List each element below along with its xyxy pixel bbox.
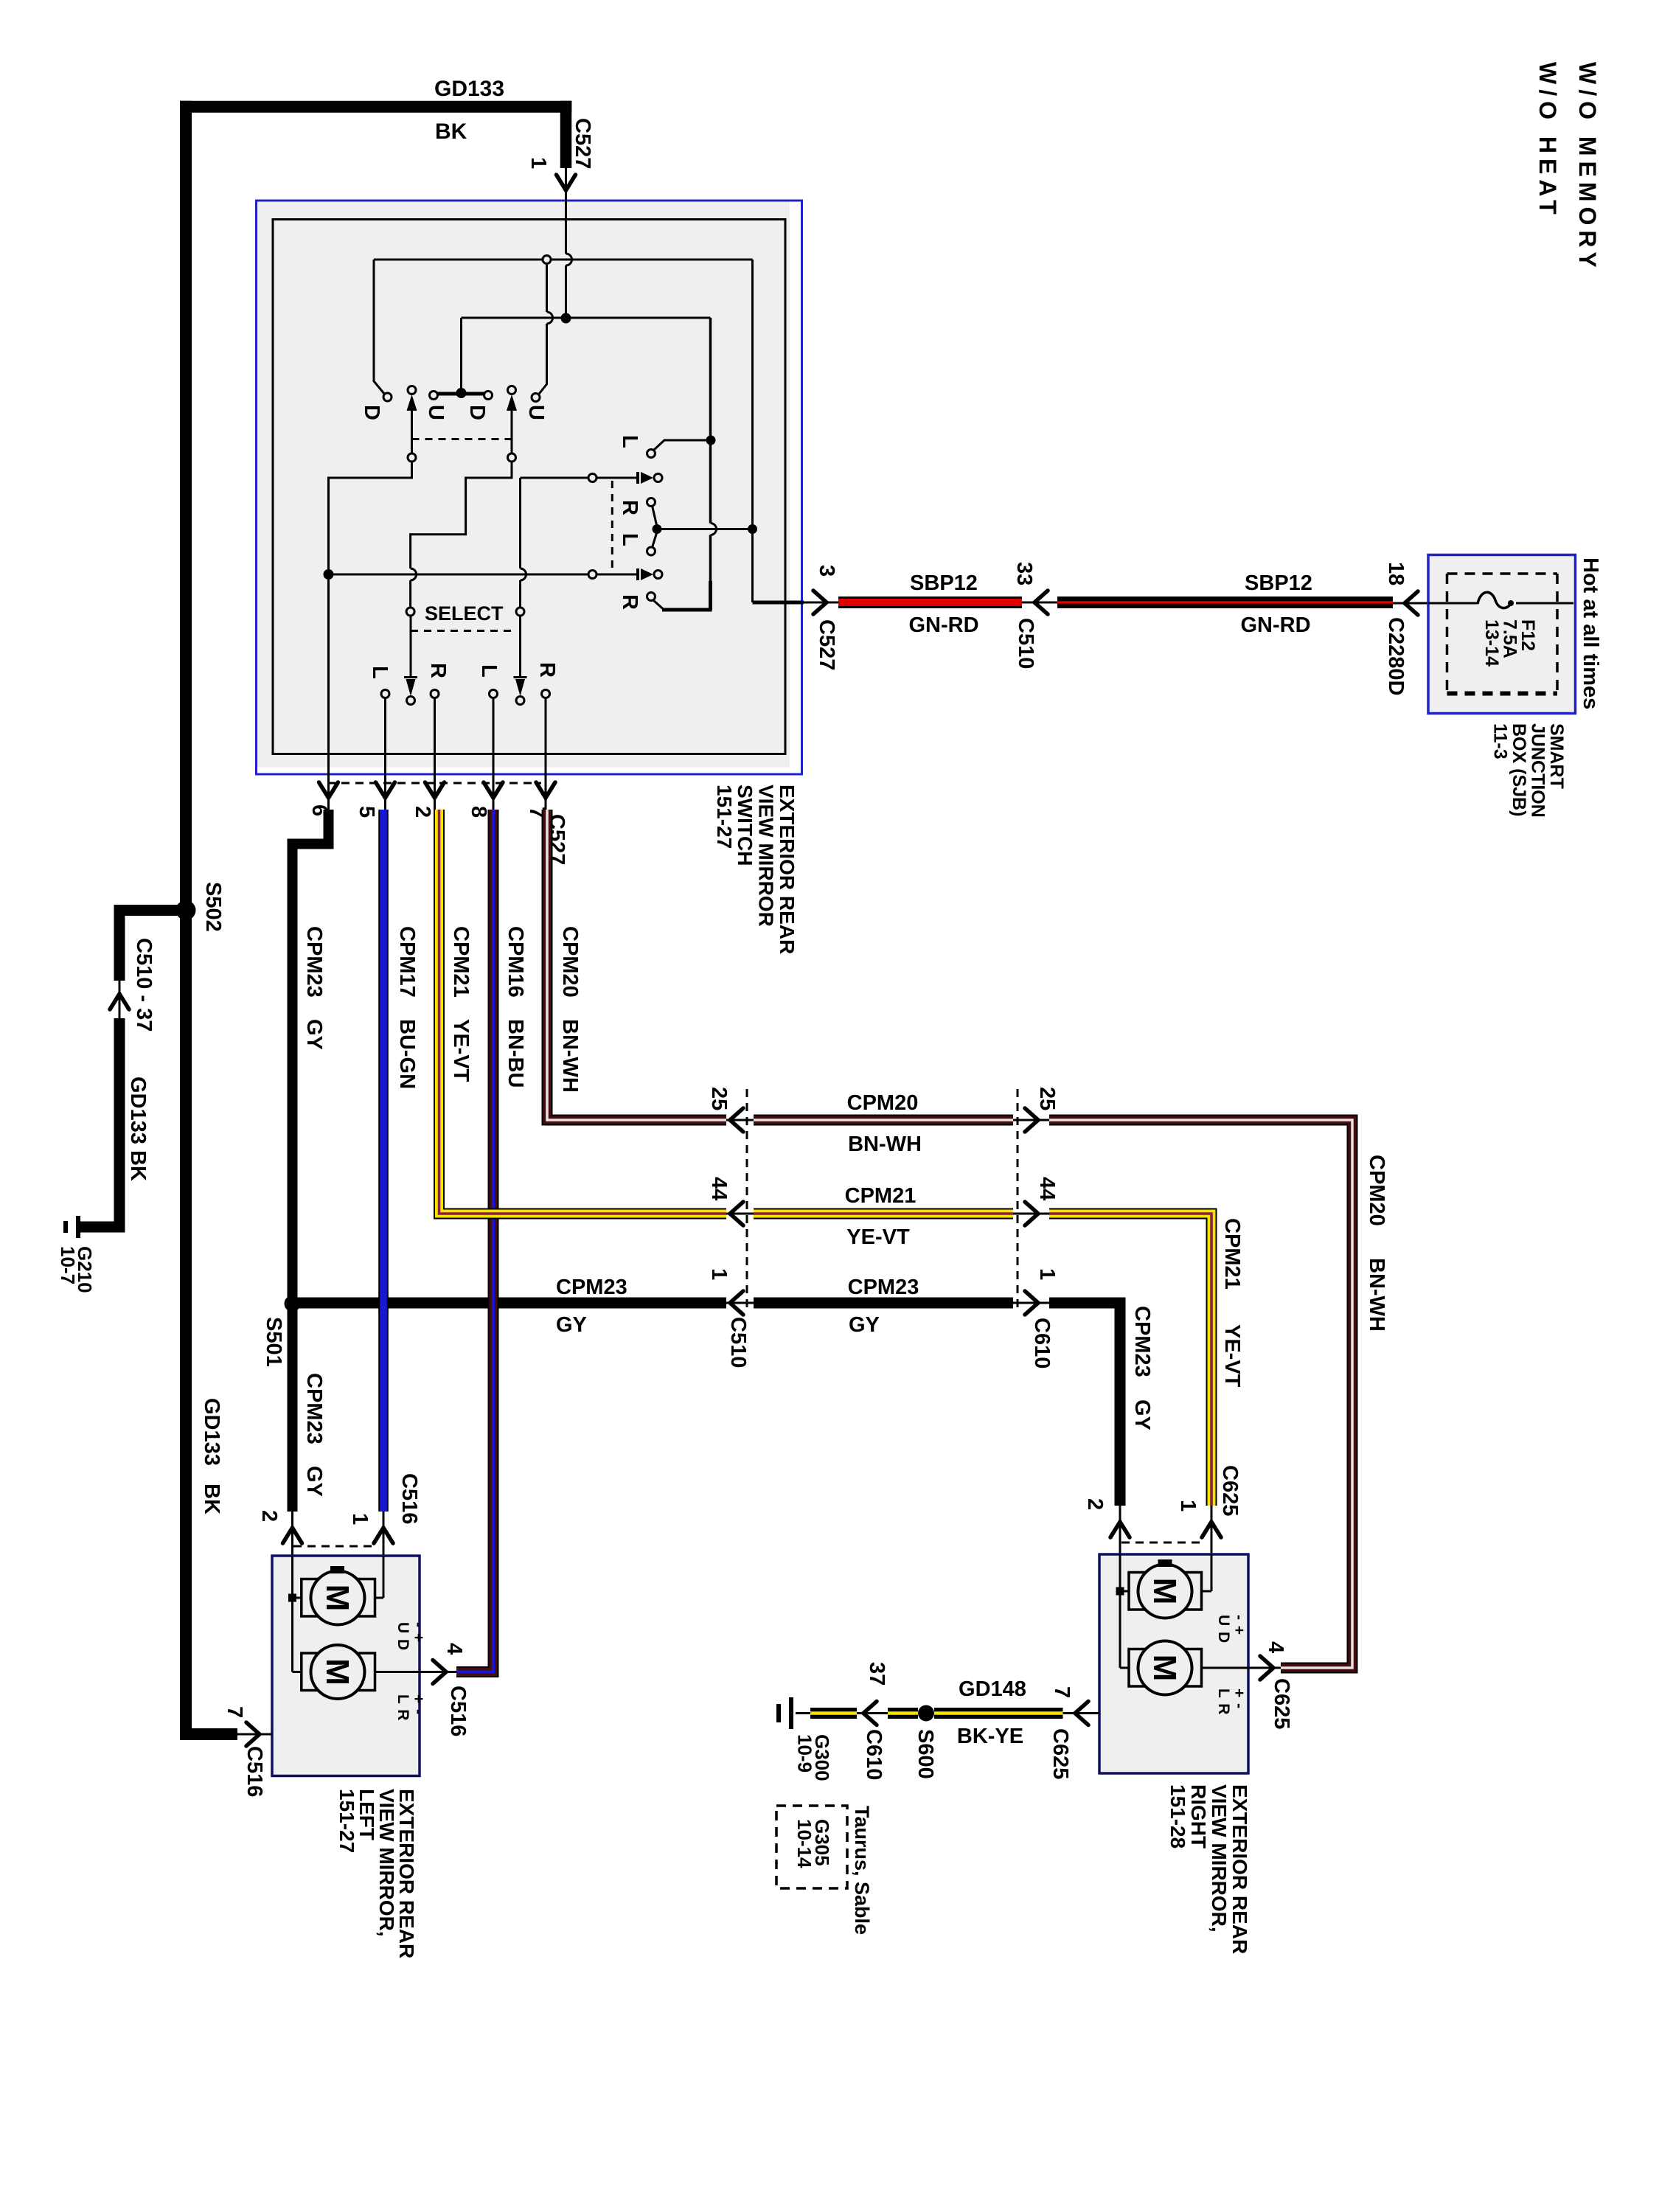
select contacts L R L R [381,690,389,698]
svg-text:R: R [535,662,559,678]
svg-text:R: R [618,500,641,515]
svg-text:4: 4 [442,1643,466,1655]
svg-text:C610: C610 [862,1729,886,1780]
svg-text:VIEW MIRROR: VIEW MIRROR [755,785,778,927]
svg-text:L: L [368,666,392,679]
svg-text:BK: BK [435,119,467,144]
svg-text:M: M [1147,1655,1183,1682]
svg-text:7: 7 [1050,1686,1074,1698]
svg-text:GD133: GD133 [200,1398,223,1466]
wire CPM20 BN-WH middle segment [726,1119,754,1121]
svg-text:L R: L R [394,1694,411,1721]
svg-text:1: 1 [348,1513,372,1525]
svg-text:GN-RD: GN-RD [1240,613,1310,637]
connector C527 dashed line at switch pins [327,782,541,785]
svg-text:BK: BK [200,1484,223,1514]
SJB label [1490,723,1568,818]
svg-text:GD148: GD148 [959,1677,1026,1701]
svg-text:151-28: 151-28 [1166,1784,1189,1848]
svg-text:BN-WH: BN-WH [558,1019,582,1093]
wire GD133 BK trunk down left side [180,101,192,1734]
switch pin drop wires [327,580,330,810]
U/D rocker 1 contacts D and U arrow [383,393,392,401]
switch internal: ground bus line L3 [462,317,711,319]
wire GD148 BK-YE segment to S600 [934,1708,1063,1719]
svg-text:S501: S501 [262,1317,285,1367]
svg-text:M: M [319,1658,355,1686]
branch wire to G210 [119,905,192,916]
svg-text:GY: GY [849,1313,880,1337]
svg-text:CPM16: CPM16 [504,926,527,998]
wire CPM16 crossing over CPM23 [488,1292,499,1314]
svg-text:GY: GY [302,1466,326,1497]
right mirror internal wiring [1119,1554,1121,1668]
svg-text:CPM20: CPM20 [847,1091,919,1115]
svg-text:C516: C516 [446,1686,470,1736]
connector C610 dashed inline [1017,1089,1019,1313]
svg-text:2: 2 [411,806,434,818]
svg-text:44: 44 [1035,1177,1059,1200]
svg-text:2: 2 [1083,1498,1107,1510]
svg-text:M: M [319,1585,355,1612]
svg-text:D: D [465,405,489,420]
fuse F12 element [1478,592,1511,608]
svg-text:U: U [424,405,448,420]
svg-text:Taurus, Sable: Taurus, Sable [851,1806,873,1935]
svg-text:151-27: 151-27 [713,785,736,849]
svg-text:C516: C516 [397,1473,421,1524]
svg-text:CPM20: CPM20 [1365,1155,1388,1226]
svg-text:C625: C625 [1218,1465,1242,1516]
svg-text:CPM23: CPM23 [302,926,326,998]
svg-text:S600: S600 [914,1729,937,1779]
svg-text:BN-WH: BN-WH [1365,1258,1388,1332]
svg-text:44: 44 [707,1177,731,1200]
svg-text:4: 4 [1264,1641,1287,1653]
svg-text:CPM21: CPM21 [449,926,473,998]
svg-text:S502: S502 [201,882,225,932]
wire CPM20 BN-WH right segment to right mirror pin 4 [1049,1120,1352,1668]
exterior rear view mirror switch box [257,202,790,768]
svg-text:L R: L R [1215,1688,1232,1715]
left mirror pin 4 to CPM16 [375,1671,420,1673]
connector C2280D pin 18 at SJB [1393,602,1478,605]
wire CPM17 BU-GN from pin 5 [378,810,389,1512]
svg-text:R: R [618,594,641,610]
ground side vertical v2 (hops pivot feed) [709,318,712,524]
wire into fuse [1428,602,1478,605]
connector C610 pin 37 inline [857,1712,888,1714]
svg-text:L: L [618,435,641,448]
svg-text:SMART: SMART [1546,723,1567,789]
svg-text:+ -: + - [1231,1688,1248,1709]
svg-text:BOX (SJB): BOX (SJB) [1509,723,1529,816]
svg-text:W/O MEMORY: W/O MEMORY [1574,62,1601,273]
wire GD133 BK top run from ground trunk to switch pin 1 [180,101,571,113]
svg-text:U D: U D [394,1622,411,1651]
svg-text:- +: - + [410,1622,427,1643]
wire CPM23 GY from pin 6 [293,810,329,1512]
wire CPM21 YE-VT middle segment [726,1213,754,1215]
wire CPM20 BN-WH from pin 7 [547,810,726,1120]
left mirror motor U/D [302,1579,323,1617]
wire A from pin1 into box (hops L2) [565,164,567,254]
select rocker pivot R-L [647,498,655,507]
svg-text:3: 3 [815,565,838,577]
svg-text:10-14: 10-14 [793,1819,815,1868]
svg-text:EXTERIOR REAR: EXTERIOR REAR [776,785,799,954]
right mirror pin 4 to CPM20 [1202,1667,1249,1669]
svg-text:C625: C625 [1270,1678,1293,1729]
R arrow pair contacts [588,474,597,482]
switch box label [713,785,799,954]
wire SBP12 GN-RD from C510 to SJB [1057,597,1393,608]
node title W/O MEMORY W/O HEAT [1534,62,1601,273]
svg-text:YE-VT: YE-VT [1220,1324,1244,1388]
svg-text:8: 8 [467,806,490,818]
svg-text:C510: C510 [726,1317,750,1368]
right mirror connector C625 pins 2 and 1 [1119,1506,1121,1554]
svg-text:CPM17: CPM17 [395,926,419,998]
left mirror motor L/R [302,1653,323,1691]
smart junction box [1428,555,1576,714]
wire GD133 BK to ground [114,1018,125,1233]
L output row to arrow pair [324,569,334,580]
right mirror motor U/D [1129,1573,1150,1610]
svg-text:C527: C527 [571,118,594,169]
pin 3 power bus vertical [751,260,754,602]
svg-text:RIGHT: RIGHT [1187,1784,1210,1848]
svg-text:25: 25 [1035,1087,1059,1110]
right mirror pin 7 GD148 [1063,1712,1100,1714]
select arrow right [514,676,527,678]
svg-text:CPM23: CPM23 [848,1276,919,1299]
rocker link thick bar [436,392,486,396]
R output row to arrow pair [521,477,639,479]
svg-text:11-3: 11-3 [1490,723,1511,759]
exterior rear view mirror right box [1099,1554,1248,1773]
svg-text:YE-VT: YE-VT [449,1019,473,1082]
svg-text:25: 25 [707,1087,731,1110]
svg-text:CPM23: CPM23 [1130,1306,1154,1377]
select arrow left [404,676,417,678]
ground G305 dashed box Taurus Sable [776,1806,847,1888]
svg-text:BK-YE: BK-YE [957,1725,1023,1748]
switch internal: blade 1 (left U/D rocker feed) [374,260,385,394]
svg-text:13-14: 13-14 [1481,619,1502,667]
splice S501 [285,1295,301,1312]
svg-text:GY: GY [1130,1399,1154,1430]
svg-text:C516: C516 [243,1746,266,1797]
svg-text:GY: GY [302,1019,326,1050]
svg-text:CPM23: CPM23 [556,1276,627,1299]
svg-text:C527: C527 [815,619,838,670]
wire CPM21 YE-VT from pin 2 [439,810,727,1214]
svg-text:37: 37 [865,1662,888,1686]
svg-text:- +: - + [1231,1615,1248,1635]
rocker 1 shaft to pin6 bus [408,453,416,462]
arrow pair mechanical link dashed [611,481,613,571]
svg-text:GN-RD: GN-RD [908,613,978,637]
switch internal: power bus line L2 [374,259,753,261]
wire CPM23 GY right segment to right mirror pin 2 [1049,1303,1120,1506]
svg-text:R: R [426,663,450,678]
svg-text:Hot at all times: Hot at all times [1579,557,1602,709]
svg-text:SBP12: SBP12 [910,571,978,595]
svg-text:10-9: 10-9 [794,1734,816,1773]
svg-text:10-7: 10-7 [57,1246,79,1284]
svg-text:C2280D: C2280D [1384,617,1408,695]
wire BK-YE short segment [888,1708,918,1719]
fuse F12 dashed box [1447,572,1558,575]
splice S600 [918,1705,934,1722]
svg-text:U: U [524,405,548,420]
svg-text:SBP12: SBP12 [1245,571,1312,595]
connector C510 dashed inline [746,1089,748,1313]
svg-text:BN-BU: BN-BU [504,1019,527,1088]
svg-text:VIEW MIRROR,: VIEW MIRROR, [1208,1784,1231,1933]
left mirror pin 7 from GD133 trunk [180,1728,237,1740]
R blade with thick output [647,593,655,601]
svg-text:SWITCH: SWITCH [734,785,757,866]
svg-text:2: 2 [257,1510,281,1522]
svg-text:7: 7 [223,1706,246,1718]
exterior rear view mirror left box [272,1556,420,1776]
svg-text:1: 1 [707,1268,731,1280]
rocker 2 shaft to select-left staircase [508,453,516,462]
svg-text:CPM21: CPM21 [845,1184,917,1208]
svg-text:BU-GN: BU-GN [395,1019,419,1089]
right mirror motor L/R [1129,1649,1150,1687]
svg-text:GY: GY [556,1313,587,1337]
svg-text:U D: U D [1215,1615,1232,1644]
svg-text:1: 1 [1035,1268,1059,1280]
svg-text:1: 1 [1176,1500,1200,1512]
svg-text:SELECT: SELECT [425,602,504,625]
wire BK-YE segment to ground [810,1708,857,1719]
svg-text:CPM21: CPM21 [1220,1218,1244,1290]
switch pin arrows 6 5 2 8 7 [319,782,338,798]
connector C510 pin 33 inline [1022,602,1057,604]
svg-text:GD133: GD133 [434,77,504,101]
svg-text:151-27: 151-27 [335,1789,358,1853]
L/R select rocker: L blade [647,450,655,458]
pin 3 exit wire to C527 [753,601,804,605]
left mirror connector C516 pins 2 and 1 [291,1512,293,1556]
wire CPM17 crossing over CPM23 [378,1292,389,1314]
svg-text:33: 33 [1012,562,1036,585]
right mirror box label [1166,1784,1251,1954]
svg-text:L: L [477,664,501,678]
ground G300 [796,1712,810,1714]
svg-text:M: M [1147,1578,1183,1605]
pivot feed line to pin3 bus [657,528,753,530]
svg-text:+ -: + - [410,1694,427,1715]
L arrow pair contacts [588,571,597,579]
switch internal: vertical to rocker link bar [460,318,462,390]
svg-text:EXTERIOR REAR: EXTERIOR REAR [1228,1784,1251,1954]
svg-text:CPM20: CPM20 [558,926,582,998]
svg-text:18: 18 [1384,562,1408,585]
svg-text:L: L [618,533,641,546]
svg-text:W/O HEAT: W/O HEAT [1534,62,1561,220]
ground G210 [76,1216,80,1238]
fuse label F12 7.5A 13-14 [1481,619,1538,667]
svg-text:CPM23: CPM23 [302,1373,326,1444]
svg-text:BN-WH: BN-WH [848,1133,922,1156]
rocker mechanical link dashed [412,438,512,440]
wire CPM21 YE-VT right segment to right mirror pin 1 [1049,1214,1211,1506]
blade 2 (right U/D rocker feed), hops L3 [543,256,551,264]
svg-text:C625: C625 [1048,1728,1072,1779]
svg-text:D: D [360,405,383,420]
svg-text:C610: C610 [1030,1318,1054,1368]
connector C527 pin 1 arrow [565,164,567,319]
svg-text:C510 - 37: C510 - 37 [132,938,156,1032]
splice S502 [176,900,196,920]
svg-text:1: 1 [526,157,550,169]
connector C510 pin 37 inline [119,981,121,1018]
wire CPM16 BN-BU from pin 8 [456,810,493,1672]
svg-text:YE-VT: YE-VT [846,1225,910,1249]
svg-text:C510: C510 [1014,618,1037,669]
left mirror box label [335,1789,418,1958]
svg-text:5: 5 [355,806,378,818]
svg-text:GD133 BK: GD133 BK [126,1077,150,1181]
left mirror internal wiring [291,1556,293,1672]
svg-text:JUNCTION: JUNCTION [1528,723,1548,818]
wire SBP12 GN-RD from switch to C510 [838,597,1022,608]
